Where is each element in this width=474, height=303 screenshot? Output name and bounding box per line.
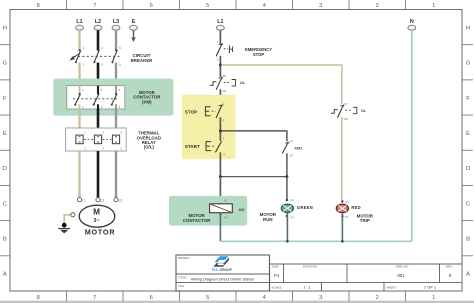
wire L2 breaker to contactor	[97, 63, 100, 95]
svg-text:L2: L2	[101, 199, 105, 203]
wire motor frame to earth	[64, 213, 75, 223]
svg-text:001: 001	[397, 273, 405, 278]
svg-text:D: D	[466, 166, 470, 172]
svg-text:(O/L): (O/L)	[144, 145, 155, 150]
svg-text:KM: KM	[239, 208, 245, 212]
wire L3 breaker to contactor	[115, 63, 117, 95]
svg-text:97: 97	[344, 102, 348, 106]
wire red lamp to neutral bus	[341, 213, 343, 241]
svg-text:B: B	[466, 237, 470, 243]
wire branch to trip-circuit OL contact	[221, 65, 341, 104]
svg-text:Wiring Diagram Direct Online S: Wiring Diagram Direct Online Starter	[191, 277, 255, 282]
svg-text:N: N	[410, 19, 414, 25]
svg-text:OL: OL	[361, 109, 367, 113]
motor M 3-phase	[77, 198, 122, 237]
wire L1 breaker to contactor	[78, 63, 80, 95]
svg-text:TAG: TAG	[178, 284, 185, 288]
svg-text:L2: L2	[95, 19, 101, 25]
svg-text:1 OF 1: 1 OF 1	[424, 285, 437, 290]
svg-text:DWG NO: DWG NO	[396, 265, 409, 269]
svg-text:2: 2	[376, 295, 379, 301]
wire START to coil junction	[219, 152, 221, 177]
svg-text:X1: X1	[290, 198, 294, 202]
wire L1 supply to breaker	[78, 30, 80, 50]
wire L1 contactor to overload relay	[78, 109, 80, 135]
svg-text:95: 95	[223, 74, 227, 78]
svg-text:6: 6	[150, 3, 153, 9]
wire OL 98 to red lamp	[341, 117, 343, 202]
wire L1 overload to motor	[78, 151, 80, 198]
svg-text:DRAWN: DRAWN	[178, 256, 190, 260]
svg-text:1 : 1: 1 : 1	[303, 285, 312, 290]
wire junction to coil A1	[219, 177, 221, 204]
svg-text:REV: REV	[446, 265, 452, 269]
motor contactor KM main contacts	[53, 79, 173, 116]
wire to KM1 holding contact	[221, 131, 287, 141]
earth arrow E	[131, 30, 136, 42]
svg-text:STOP: STOP	[185, 110, 197, 115]
svg-text:(KM): (KM)	[142, 100, 152, 105]
highlight box STOP/START	[182, 95, 236, 159]
svg-text:RUN: RUN	[263, 217, 273, 222]
node L2 supply terminal	[94, 19, 102, 30]
wire coil A2 to neutral bus	[219, 213, 221, 242]
wire L2 overload to motor	[97, 151, 100, 198]
svg-text:STOP: STOP	[253, 52, 265, 57]
node junction STOP/KM1	[219, 129, 222, 132]
svg-text:CONTACTOR: CONTACTOR	[183, 218, 211, 223]
svg-text:96: 96	[223, 89, 227, 93]
svg-text:F4: F4	[274, 273, 280, 278]
wire neutral bus	[220, 240, 411, 242]
svg-text:6: 6	[150, 295, 153, 301]
node junction green lamp on bus	[286, 240, 289, 243]
svg-text:BREAKER: BREAKER	[131, 58, 154, 63]
wire KM1 branch to green lamp	[286, 177, 288, 200]
wire neutral N drop	[411, 30, 413, 241]
svg-text:M: M	[93, 207, 100, 216]
svg-text:L1: L1	[76, 19, 82, 25]
svg-text:TITLE: TITLE	[178, 275, 186, 279]
aux contact KM1 13-14	[282, 139, 302, 157]
wire OL to STOP button	[219, 89, 221, 104]
svg-text:CIRCUIT: CIRCUIT	[133, 53, 151, 58]
svg-text:14: 14	[290, 153, 294, 157]
svg-text:7: 7	[93, 295, 96, 301]
svg-text:A1: A1	[224, 199, 228, 203]
svg-text:F: F	[3, 96, 7, 102]
svg-text:H: H	[466, 25, 470, 31]
svg-text:SIZE: SIZE	[272, 265, 279, 269]
wire L1 control to emergency stop	[219, 30, 221, 44]
svg-text:RED: RED	[351, 205, 361, 210]
svg-text:FSCM NO: FSCM NO	[303, 265, 317, 269]
node L1 control supply	[217, 19, 225, 30]
stop pushbutton STOP 1-2	[185, 102, 225, 122]
svg-text:B: B	[3, 237, 7, 243]
node junction red lamp on bus	[341, 240, 344, 243]
thermal overload relay OL power elements	[66, 128, 161, 151]
node N neutral supply	[408, 19, 416, 30]
svg-text:L1: L1	[217, 19, 223, 25]
svg-text:E: E	[466, 131, 470, 137]
svg-text:1: 1	[432, 3, 435, 9]
svg-text:GREEN: GREEN	[297, 205, 313, 210]
node E earth terminal	[130, 19, 138, 30]
svg-text:2: 2	[376, 3, 379, 9]
overload trip contact OL 95-96	[210, 74, 246, 93]
svg-text:5: 5	[206, 3, 209, 9]
svg-text:X2: X2	[345, 215, 349, 219]
node L3 supply terminal	[112, 19, 120, 30]
wire emergency stop to OL contact	[219, 56, 221, 77]
svg-text:KM1: KM1	[295, 146, 303, 150]
circuit breaker CB 3-pole	[69, 46, 153, 67]
svg-text:L3: L3	[113, 19, 119, 25]
svg-text:SHEET: SHEET	[386, 285, 396, 289]
svg-text:D: D	[3, 166, 7, 172]
wire L3 contactor to overload relay	[115, 109, 117, 135]
svg-text:3: 3	[319, 295, 322, 301]
svg-text:7: 7	[93, 3, 96, 9]
wire STOP to START	[219, 117, 221, 141]
svg-text:START: START	[185, 144, 200, 149]
svg-text:8: 8	[37, 3, 40, 9]
wire green lamp to neutral bus	[286, 213, 288, 242]
indicator lamp RED motor trip	[336, 200, 373, 223]
svg-text:X2: X2	[290, 215, 294, 219]
svg-text:1: 1	[432, 295, 435, 301]
svg-text:8: 8	[37, 295, 40, 301]
svg-text:TRIP: TRIP	[360, 218, 370, 223]
start pushbutton START 3-4	[185, 137, 225, 157]
svg-text:OL: OL	[240, 81, 246, 85]
svg-text:L1: L1	[82, 199, 86, 203]
wire L2 supply to breaker	[97, 30, 100, 50]
svg-text:A: A	[3, 272, 7, 278]
svg-text:A2: A2	[224, 215, 228, 219]
svg-text:3: 3	[319, 3, 322, 9]
wire L3 overload to motor	[115, 151, 117, 198]
svg-text:98: 98	[344, 117, 348, 121]
svg-text:X1: X1	[345, 200, 349, 204]
svg-text:C: C	[3, 201, 7, 207]
wire L2 contactor to overload relay	[97, 109, 100, 135]
svg-text:F: F	[466, 96, 470, 102]
svg-text:3~: 3~	[93, 218, 99, 224]
svg-text:H: H	[3, 25, 7, 31]
node junction to lamp branch	[219, 64, 222, 67]
svg-text:G: G	[466, 61, 471, 67]
svg-text:A: A	[466, 272, 470, 278]
svg-text:E: E	[3, 131, 7, 137]
svg-text:SCALE: SCALE	[272, 285, 282, 289]
svg-text:C: C	[466, 201, 470, 207]
svg-text:E: E	[132, 19, 136, 25]
node L1 supply terminal	[76, 19, 84, 30]
contactor coil KM	[169, 196, 247, 226]
svg-text:13: 13	[290, 139, 294, 143]
indicator lamp GREEN motor run	[260, 198, 313, 222]
svg-text:5: 5	[206, 295, 209, 301]
wire KM1 to junction line	[286, 153, 288, 176]
ground symbol at motor	[58, 223, 70, 234]
overload trip contact OL 97-98	[331, 102, 367, 121]
svg-text:L3: L3	[119, 199, 123, 203]
svg-text:G: G	[3, 61, 8, 67]
svg-text:PLC GROUP: PLC GROUP	[212, 268, 233, 272]
wire junction line START/KM1	[219, 175, 289, 178]
wire L3 supply to breaker	[115, 30, 117, 50]
emergency stop pushbutton ES	[216, 40, 272, 61]
svg-text:MOTOR: MOTOR	[85, 227, 116, 236]
